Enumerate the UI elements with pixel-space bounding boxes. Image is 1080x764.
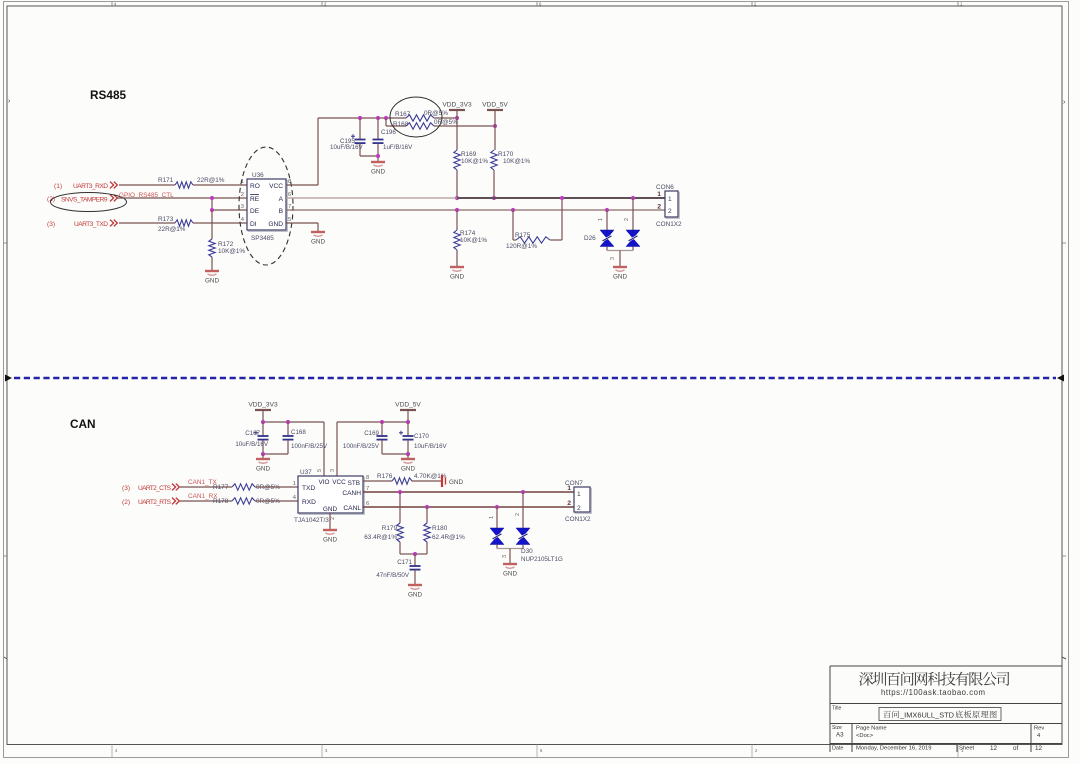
annotation dashed ellipse around U36 (239, 147, 293, 265)
svg-text:(3): (3) (122, 485, 130, 492)
junction C170 ground tie (406, 452, 410, 456)
svg-text:GND: GND (449, 479, 463, 486)
svg-text:_IMX6ULL_STD: _IMX6ULL_STD (899, 711, 954, 720)
svg-text:0R@5%: 0R@5% (424, 110, 448, 117)
capacitor C170 10uF/B/16V (407, 422, 409, 436)
svg-text:C169: C169 (364, 430, 379, 437)
svg-text:RO: RO (250, 183, 260, 190)
svg-text:<Doc>: <Doc> (856, 733, 874, 739)
svg-text:6: 6 (366, 501, 369, 507)
svg-text:2: 2 (567, 500, 571, 507)
svg-text:B: B (279, 208, 284, 215)
svg-text:3: 3 (241, 204, 244, 210)
svg-text:3: 3 (330, 469, 336, 472)
svg-text:R176: R176 (377, 473, 393, 480)
svg-text:U37: U37 (300, 469, 312, 476)
svg-text:1uF/B/16V: 1uF/B/16V (383, 144, 413, 151)
junction RE tie (210, 196, 214, 200)
ground below R174 (450, 266, 464, 268)
wire R167 to VDD_3V3 (434, 117, 457, 119)
svg-text:R178: R178 (213, 498, 229, 505)
svg-text:CANL: CANL (343, 505, 361, 512)
junction C195 (358, 116, 362, 120)
svg-text:TJA1042T/3: TJA1042T/3 (294, 517, 329, 524)
ground below C195/C196 (371, 161, 385, 163)
svg-text:10K@1%: 10K@1% (460, 237, 487, 244)
svg-text:10uF/B/16V: 10uF/B/16V (235, 441, 269, 448)
svg-text:2: 2 (657, 204, 661, 211)
resistor R174 10K@1% (455, 208, 459, 212)
connector CON7 CON1X2 (575, 488, 591, 513)
svg-text:10K@1%: 10K@1% (218, 248, 245, 255)
svg-text:CAN: CAN (70, 417, 96, 431)
svg-text:GND: GND (371, 169, 385, 176)
svg-text:(1): (1) (54, 183, 62, 190)
svg-text:10uF/B/16V: 10uF/B/16V (414, 443, 448, 450)
resistor R178 0R@5% (232, 498, 255, 504)
power VDD_3V3 CAN (255, 409, 271, 411)
svg-text:12: 12 (1035, 745, 1043, 752)
power VDD_5V CAN (400, 409, 416, 411)
svg-text:A3: A3 (836, 732, 844, 739)
divider arrow right (1057, 375, 1064, 382)
company name (859, 672, 873, 686)
svg-text:VCC: VCC (269, 183, 283, 190)
ground below R172 (205, 270, 219, 272)
svg-text:A: A (279, 196, 284, 203)
svg-text:C170: C170 (414, 433, 429, 440)
wire net B from U36 to CON6 (286, 209, 665, 211)
svg-text:GND: GND (408, 592, 422, 599)
svg-text:63.4R@1%: 63.4R@1% (364, 534, 397, 541)
power VDD_5V RS485 (487, 109, 503, 111)
svg-text:GND: GND (205, 278, 219, 285)
resistor R177 0R@5% (232, 484, 255, 490)
resistor R168 0R@5% (385, 118, 387, 126)
svg-text:Date: Date (832, 746, 843, 752)
svg-text:NUP2105LT1G: NUP2105LT1G (521, 556, 563, 563)
wire R168 to VDD_5V (434, 125, 495, 127)
svg-text:2: 2 (515, 513, 521, 516)
wire R178 to U37 RXD (255, 500, 298, 502)
wire U36 VCC up to power node (286, 184, 318, 186)
annotation ellipse around R167/R168 (390, 97, 442, 137)
svg-text:GND: GND (256, 466, 270, 473)
svg-text:1: 1 (489, 516, 495, 519)
junction R168/VDD_5V (493, 124, 497, 128)
wire R171 to U36 RO (193, 184, 247, 186)
svg-text:https://100ask.taobao.com: https://100ask.taobao.com (881, 688, 985, 697)
svg-text:GND: GND (401, 466, 415, 473)
svg-text:R180: R180 (432, 525, 448, 532)
wire U37 GND pin to ground (329, 513, 331, 529)
svg-text:3: 3 (610, 257, 616, 260)
capacitor C195 10uF/B/16V (359, 118, 361, 139)
svg-text:VIO: VIO (318, 479, 329, 486)
wire CAN1_RX to R178 (180, 500, 232, 502)
svg-text:10uF/B/16V: 10uF/B/16V (330, 144, 364, 151)
resistor R176 4.70K@1% (392, 478, 412, 484)
svg-text:Monday, December 16, 2019: Monday, December 16, 2019 (856, 746, 932, 752)
section divider dashed line (14, 377, 1056, 379)
svg-text:R171: R171 (158, 177, 174, 184)
wire net CANH from U37 to CON7 (363, 491, 574, 493)
svg-text:GND: GND (268, 221, 283, 228)
svg-text:R167: R167 (395, 111, 411, 118)
svg-text:R170: R170 (498, 151, 514, 158)
junction VDD_5V stem (406, 420, 410, 424)
svg-text:5: 5 (317, 469, 323, 472)
svg-text:5: 5 (288, 217, 291, 223)
svg-text:8: 8 (366, 475, 369, 481)
wire R172 to ground (211, 257, 213, 270)
resistor R173 22R@1% (175, 220, 193, 226)
wire GPIO_RS485_CTL to RE/DE tie (117, 197, 212, 199)
svg-text:VCC: VCC (332, 479, 346, 486)
svg-text:(2): (2) (122, 499, 130, 506)
junction C167 ground tie (261, 452, 265, 456)
svg-text:10K@1%: 10K@1% (461, 158, 488, 165)
svg-text:C167: C167 (245, 430, 260, 437)
svg-text:UART3_RXD: UART3_RXD (73, 183, 108, 190)
svg-text:SNVS_TAMPER9: SNVS_TAMPER9 (61, 197, 108, 204)
junction split termination (413, 552, 417, 556)
TVS diode pair D30 (495, 505, 499, 509)
junction C196 (376, 116, 380, 120)
svg-text:Rev: Rev (1034, 726, 1044, 732)
svg-text:GND: GND (323, 506, 338, 513)
svg-text:Page Name: Page Name (856, 726, 887, 732)
svg-text:CON1X2: CON1X2 (656, 221, 682, 228)
wire R177 to U37 TXD (255, 486, 298, 488)
wire UART3_TXD to R173 (119, 222, 175, 224)
svg-text:62.4R@1%: 62.4R@1% (432, 534, 465, 541)
svg-text:6: 6 (288, 192, 291, 198)
wire UART3_RXD to R171 (119, 184, 175, 186)
op-amp U36 SP3485 transceiver (248, 180, 287, 231)
svg-text:DI: DI (250, 221, 257, 228)
capacitor C167 10uF/B/16V (262, 422, 264, 436)
svg-text:1: 1 (668, 196, 672, 203)
wire tie to R172 (211, 210, 213, 239)
svg-text:GND: GND (323, 537, 337, 544)
power VDD_3V3 RS485 (449, 109, 465, 111)
annotation ellipse around SNVS_TAMPER9 (51, 193, 127, 212)
ground below C167 (262, 454, 264, 458)
ground right of R176 (441, 475, 443, 487)
svg-text:100nF/B/25V: 100nF/B/25V (343, 443, 380, 450)
svg-text:RXD: RXD (302, 499, 316, 506)
svg-text:C168: C168 (291, 429, 306, 436)
junction R168 tap (384, 116, 388, 120)
ground at U36 (311, 231, 325, 233)
svg-text:D30: D30 (521, 548, 533, 555)
resistor R167 0R@5% (406, 115, 434, 121)
resistor R172 10K@1% (209, 239, 215, 257)
svg-text:of: of (1013, 745, 1019, 752)
junction C167 (261, 420, 265, 424)
svg-text:UART2_CTS: UART2_CTS (138, 485, 172, 492)
svg-text:SP3485: SP3485 (251, 235, 274, 242)
svg-text:1: 1 (293, 481, 296, 487)
svg-text:GND: GND (613, 274, 627, 281)
svg-text:22R@1%: 22R@1% (158, 226, 186, 233)
svg-text:7: 7 (366, 486, 369, 492)
svg-text:RS485: RS485 (90, 88, 127, 102)
resistor R169 10K@1% (454, 150, 460, 170)
svg-text:VDD_5V: VDD_5V (482, 102, 508, 109)
connector CON6 CON1X2 (666, 192, 679, 218)
svg-text:VDD_3V3: VDD_3V3 (442, 102, 472, 109)
svg-text:STB: STB (348, 480, 360, 487)
svg-text:Sheet: Sheet (959, 746, 975, 752)
svg-text:1: 1 (598, 218, 604, 221)
svg-text:R173: R173 (158, 216, 174, 223)
svg-text:22R@1%: 22R@1% (197, 177, 225, 184)
resistor R180 62.4R@1% (425, 505, 429, 509)
wire R170 to wire A (493, 170, 495, 198)
transistor U37 TJA1042T/3 CAN transceiver (299, 477, 364, 514)
svg-text:R177: R177 (213, 484, 229, 491)
ground below C170 (407, 454, 409, 458)
wire VCC node to R167 (318, 117, 406, 119)
svg-text:(2): (2) (47, 196, 55, 203)
ground below C171 (408, 584, 422, 586)
wire VDD_5V rail CAN (337, 421, 408, 423)
wire R176 to ground (412, 480, 441, 482)
svg-text:2: 2 (668, 208, 672, 215)
svg-text:0R@5%: 0R@5% (434, 119, 458, 126)
svg-text:100nF/B/25V: 100nF/B/25V (291, 443, 328, 450)
resistor R179 63.4R@1% (398, 490, 402, 494)
resistor R170 10K@1% (491, 150, 497, 170)
capacitor C196 1uF/B/16V (377, 118, 379, 139)
resistor R175 120R@1% termination (511, 208, 515, 212)
resistor R171 22R@1% (175, 182, 193, 188)
svg-text:1: 1 (577, 491, 581, 498)
junction C168 (286, 420, 290, 424)
TVS diode pair D26 (605, 208, 609, 212)
svg-text:R168: R168 (393, 121, 409, 128)
svg-text:7: 7 (288, 204, 291, 210)
ground below U37 (323, 529, 337, 531)
wire R173 to U36 DI (193, 222, 247, 224)
wire CAN1_TX to R177 (180, 486, 232, 488)
svg-text:2: 2 (624, 218, 630, 221)
svg-text:47nF/B/50V: 47nF/B/50V (376, 572, 410, 579)
svg-text:3: 3 (502, 555, 508, 558)
wire U37 STB to R176 (363, 480, 392, 482)
junction R170/A (492, 196, 496, 200)
svg-text:R172: R172 (218, 241, 234, 248)
svg-text:2: 2 (241, 192, 244, 198)
svg-text:GND: GND (450, 274, 464, 281)
svg-text:D26: D26 (584, 235, 596, 242)
svg-text:UART3_TXD: UART3_TXD (74, 221, 108, 228)
junction C169 (380, 420, 384, 424)
wire U36 GND pin (286, 222, 318, 224)
svg-text:R169: R169 (461, 151, 477, 158)
svg-text:CANH: CANH (342, 490, 361, 497)
wire net CANL from U37 to CON7 (363, 506, 574, 508)
svg-text:R179: R179 (382, 525, 398, 532)
junction DE tie (210, 208, 214, 212)
ground below D30 (503, 563, 517, 565)
svg-text:10K@1%: 10K@1% (503, 158, 530, 165)
junction C195/C196 ground tie (376, 154, 380, 158)
wire R174 to ground (456, 250, 458, 266)
junction R167/VDD_3V3 (455, 116, 459, 120)
wire R169 to wire A (456, 170, 458, 198)
title block (830, 666, 1062, 752)
svg-text:GND: GND (311, 239, 325, 246)
svg-text:120R@1%: 120R@1% (506, 243, 537, 250)
svg-text:U36: U36 (252, 172, 264, 179)
svg-text:VDD_3V3: VDD_3V3 (248, 402, 278, 409)
ground below D26 (613, 266, 627, 268)
svg-text:1: 1 (567, 485, 571, 492)
svg-text:CON1X2: CON1X2 (565, 516, 591, 523)
junction R169/A (455, 196, 459, 200)
svg-text:GND: GND (503, 571, 517, 578)
svg-text:2: 2 (330, 517, 336, 520)
svg-text:(3): (3) (47, 221, 55, 228)
svg-text:DE: DE (250, 208, 260, 215)
svg-text:12: 12 (990, 745, 998, 752)
svg-text:R175: R175 (515, 232, 531, 239)
capacitor C171 47nF/B/50V (414, 554, 416, 566)
svg-text:C196: C196 (381, 129, 396, 136)
svg-text:CON6: CON6 (656, 184, 674, 191)
svg-text:C171: C171 (397, 559, 412, 566)
wire VDD_3V3 rail CAN (263, 421, 324, 423)
svg-text:Size: Size (832, 725, 842, 731)
svg-text:TXD: TXD (302, 485, 315, 492)
svg-text:VDD_5V: VDD_5V (395, 402, 421, 409)
svg-text:Title: Title (832, 706, 841, 712)
divider arrow left (5, 375, 12, 382)
capacitor C169 100nF/B/25V (381, 422, 383, 436)
svg-text:UART2_RTS: UART2_RTS (138, 499, 172, 506)
svg-text:1: 1 (657, 191, 661, 198)
svg-text:R174: R174 (460, 230, 476, 237)
wire net A from U36 to CON6 (286, 197, 457, 199)
svg-text:2: 2 (577, 505, 581, 512)
svg-text:RE: RE (250, 196, 260, 203)
capacitor C168 100nF/B/25V (287, 422, 289, 436)
